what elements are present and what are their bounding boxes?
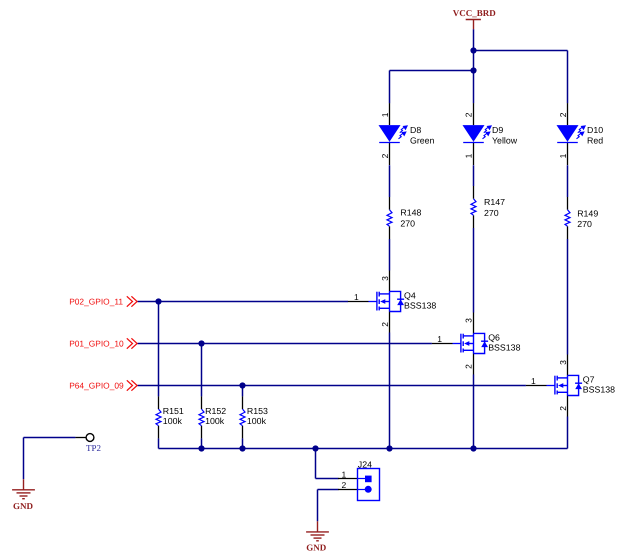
svg-text:D8: D8	[410, 125, 421, 135]
svg-text:100k: 100k	[163, 416, 183, 426]
svg-text:R151: R151	[163, 406, 184, 416]
svg-text:2: 2	[380, 153, 390, 158]
svg-text:270: 270	[577, 219, 592, 229]
svg-text:Q6: Q6	[488, 332, 500, 342]
svg-text:3: 3	[558, 360, 568, 365]
svg-text:3: 3	[464, 318, 474, 323]
svg-text:R148: R148	[400, 208, 421, 218]
svg-text:Q7: Q7	[583, 374, 595, 384]
svg-text:2: 2	[342, 480, 347, 490]
svg-text:100k: 100k	[205, 416, 225, 426]
svg-text:1: 1	[558, 153, 568, 158]
svg-text:GND: GND	[13, 501, 34, 511]
svg-text:270: 270	[484, 208, 499, 218]
svg-text:VCC_BRD: VCC_BRD	[453, 8, 497, 18]
svg-text:D10: D10	[587, 125, 603, 135]
svg-text:1: 1	[342, 469, 347, 479]
svg-text:GND: GND	[306, 543, 327, 553]
svg-text:2: 2	[558, 406, 568, 411]
svg-text:3: 3	[380, 276, 390, 281]
svg-text:R149: R149	[577, 208, 598, 218]
svg-text:2: 2	[464, 112, 474, 117]
svg-text:P01_GPIO_10: P01_GPIO_10	[69, 338, 124, 348]
svg-text:Q4: Q4	[404, 290, 416, 300]
svg-text:100k: 100k	[247, 416, 267, 426]
svg-text:Yellow: Yellow	[492, 135, 518, 145]
svg-text:J24: J24	[358, 459, 372, 469]
svg-text:1: 1	[354, 292, 359, 302]
svg-text:1: 1	[380, 112, 390, 117]
svg-text:2: 2	[464, 364, 474, 369]
svg-text:BSS138: BSS138	[488, 342, 520, 352]
svg-text:P64_GPIO_09: P64_GPIO_09	[69, 380, 124, 390]
svg-text:R152: R152	[205, 406, 226, 416]
svg-text:BSS138: BSS138	[583, 384, 615, 394]
svg-text:1: 1	[437, 334, 442, 344]
svg-text:1: 1	[464, 153, 474, 158]
svg-text:1: 1	[531, 376, 536, 386]
svg-text:Red: Red	[587, 135, 603, 145]
svg-text:270: 270	[400, 218, 415, 228]
svg-text:TP2: TP2	[86, 443, 101, 453]
svg-text:P02_GPIO_11: P02_GPIO_11	[69, 296, 123, 306]
svg-text:R147: R147	[484, 197, 505, 207]
svg-text:2: 2	[558, 112, 568, 117]
svg-text:2: 2	[380, 322, 390, 327]
svg-text:BSS138: BSS138	[404, 300, 436, 310]
svg-text:D9: D9	[492, 125, 503, 135]
svg-text:Green: Green	[410, 135, 435, 145]
svg-text:R153: R153	[247, 406, 268, 416]
